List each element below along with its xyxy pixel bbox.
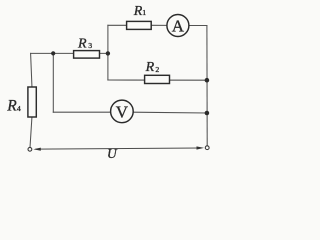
- voltmeter V: [111, 100, 134, 123]
- wire top horizontal to R1: [108, 24, 127, 26]
- voltage dimension line U: [33, 146, 204, 150]
- wire R3 branch horizontal: [31, 52, 108, 54]
- terminal left: [28, 147, 32, 151]
- wire R2 branch vertical: [107, 53, 109, 80]
- wire R2 branch horizontal: [108, 79, 207, 81]
- node junction right rail at voltmeter wire: [205, 111, 210, 116]
- wire voltmeter to right rail: [133, 111, 207, 114]
- node junction right rail at R2: [205, 78, 210, 83]
- svg-text:1: 1: [142, 8, 146, 17]
- resistor R2: [145, 75, 170, 83]
- svg-text:R: R: [77, 36, 87, 51]
- svg-text:4: 4: [17, 104, 21, 113]
- wire R1 to ammeter: [151, 24, 167, 26]
- wire ammeter to top-right corner: [189, 25, 207, 27]
- svg-text:R: R: [133, 4, 143, 19]
- svg-text:R: R: [6, 98, 17, 115]
- svg-text:U: U: [107, 146, 118, 161]
- ammeter A: [167, 15, 189, 37]
- resistor R4: [28, 87, 36, 117]
- node junction on R3 wire: [51, 51, 55, 55]
- resistor R3: [74, 51, 100, 59]
- svg-text:3: 3: [88, 41, 92, 50]
- wire right rail: [206, 26, 208, 146]
- svg-text:A: A: [172, 17, 185, 36]
- node junction right of R3: [106, 51, 110, 55]
- wire left rail of top loop: [107, 25, 109, 53]
- svg-text:R: R: [145, 60, 155, 75]
- wire voltmeter branch horizontal left: [53, 111, 110, 113]
- svg-text:V: V: [116, 103, 129, 122]
- svg-text:2: 2: [155, 65, 159, 74]
- resistor R1: [127, 21, 152, 29]
- terminal right: [205, 146, 209, 150]
- wire voltmeter branch vertical: [52, 53, 54, 112]
- wire left rail: [30, 53, 32, 147]
